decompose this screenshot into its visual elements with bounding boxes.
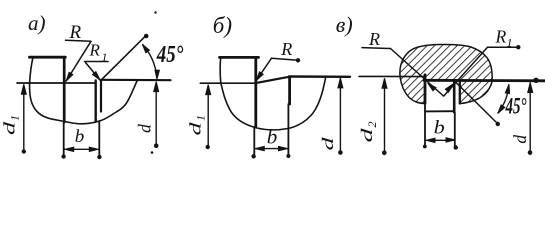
b extension left [253,127,255,156]
leader R1 diagonal [86,63,101,81]
groove right wall double line 2 [459,81,461,104]
svg-text:d: d [510,135,530,144]
dimension d line [155,83,157,146]
leader R arrowhead [426,82,436,91]
blob boundary left [400,51,425,104]
block left freehand edge [30,57,33,83]
groove right wall double line 1 [453,81,456,113]
leader R diagonal [391,49,444,97]
b extension left [424,104,426,147]
groove bottom line d1 level [17,82,96,84]
groove bottom [425,110,455,112]
b dimension line [256,148,288,150]
leader R1 arrowhead [93,72,102,82]
svg-text:в): в) [336,12,353,37]
svg-text:45°: 45° [505,94,527,119]
svg-text:а): а) [28,11,46,35]
groove left wall [424,75,427,104]
groove right wall double line 1 [94,81,96,122]
svg-text:R: R [495,26,507,46]
svg-text:1: 1 [194,115,208,121]
hatched blob fill [400,44,492,103]
arc arrow bottom [155,70,160,79]
leader R bar [66,40,92,41]
block top edge [220,56,259,59]
bore surface line [424,79,545,82]
block top edge [30,56,66,59]
b extension right [98,122,100,157]
45 deg line [101,36,146,81]
leader R diagonal [66,41,91,81]
block right edge / groove left wall [254,57,257,127]
label d [134,124,154,133]
leader R1 bar [488,46,520,48]
dimension d1 line [207,86,209,147]
break curve bottom [30,81,137,124]
svg-text:d: d [134,124,154,133]
svg-text:b: b [434,118,445,139]
45 deg arc [143,45,157,78]
groove right wall double line 2 [100,80,102,112]
label d2 [359,122,379,143]
label d [510,135,530,144]
block left freehand edge [219,57,222,83]
label d1 [2,115,22,135]
leader R arrowhead [64,72,73,82]
svg-text:d: d [320,136,337,151]
label d [320,136,337,151]
leader R arrowhead [254,72,263,82]
svg-text:d: d [188,121,205,136]
leader R1 bar [85,61,109,63]
block right edge / groove left wall [63,57,66,122]
groove right wall [288,78,291,105]
groove exit ramp [257,77,289,83]
svg-text:45°: 45° [156,42,184,68]
leader R bar [272,58,299,60]
d2 level line [359,75,425,77]
dimension d line [339,79,341,154]
b extension right [287,104,289,157]
svg-text:R: R [89,41,101,60]
svg-text:R: R [280,39,292,59]
dimension d2 line [384,80,386,155]
surface line right d level [101,79,171,82]
b extension right [454,112,456,148]
label d1 [188,115,208,136]
svg-text:b: b [267,126,278,148]
speck dot [154,11,156,13]
svg-text:1: 1 [8,115,22,121]
dimension d1 line [23,86,25,152]
b dimension line [426,139,454,141]
45 deg line end dot [144,34,149,39]
svg-text:d: d [2,120,19,135]
b extension left [63,122,65,156]
blob boundary right [411,44,493,103]
leader R diagonal [256,58,271,80]
svg-text:R: R [368,29,380,49]
surface line right [289,75,350,78]
leader R1 diagonal [444,47,488,96]
svg-text:b: b [75,126,85,146]
arc arrow top [141,43,150,53]
45 deg arc [498,85,509,113]
svg-text:б): б) [213,13,232,38]
leader R bar [362,47,391,50]
dimension d line [529,83,531,155]
break curve bottom [221,78,326,130]
svg-text:d: d [359,127,376,143]
leader R1 arrowhead [445,83,454,93]
svg-text:2: 2 [365,122,379,128]
45 deg chamfer line [456,83,498,124]
b dimension line [65,148,98,150]
groove bottom reference line [200,82,255,84]
